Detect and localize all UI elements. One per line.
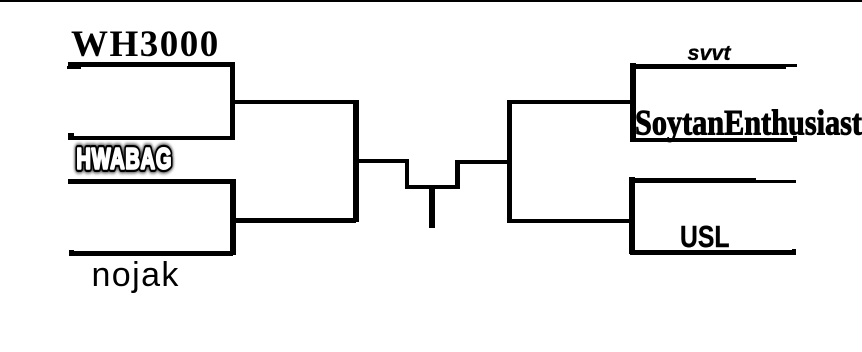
match2 vertical <box>230 179 236 255</box>
label USL <box>680 219 729 255</box>
match4 bottom line (USL line) <box>630 250 796 255</box>
match1 top line thin left tick <box>67 66 81 69</box>
match4 top line <box>630 178 756 183</box>
match4 bottom line thin extension <box>792 249 796 251</box>
top border line <box>0 0 862 2</box>
center step-down right vertical <box>455 160 460 190</box>
center bottom horizontal (final line) <box>405 185 460 190</box>
match2 bottom line (nojak line) <box>69 251 233 256</box>
match2 top line (below HWABAG) <box>68 179 236 184</box>
winner line left <box>356 159 410 164</box>
match1 bottom line left tick <box>68 133 74 136</box>
match3 top line (svvt line) <box>630 64 786 68</box>
match4 vertical <box>629 177 635 254</box>
label svvt <box>688 41 731 66</box>
connector semifinal-right to match4 <box>507 219 633 223</box>
semifinal-right vertical <box>507 100 512 223</box>
svg-text:HWABAG: HWABAG <box>77 143 173 176</box>
connector match2 to semifinal-left <box>232 218 356 223</box>
match4 top line thin extension <box>756 180 796 184</box>
match1 vertical <box>230 62 235 140</box>
match3 bottom line (SoytanEnthusiast line) <box>630 138 797 143</box>
semifinal-left vertical <box>353 100 359 223</box>
match3 top line thin extension <box>756 64 797 68</box>
match3 vertical <box>630 63 636 142</box>
winner line right <box>455 160 510 165</box>
match1 top line (WH3000 line) <box>68 62 235 67</box>
match2 bottom line left tick <box>69 250 74 252</box>
label nojak <box>92 256 180 295</box>
center step-down left vertical <box>405 159 410 190</box>
label HWABAG (white with black outline) <box>60 130 200 185</box>
match3 bottom line right end bump <box>793 136 797 138</box>
label SoytanEnthusiast <box>630 98 862 150</box>
svg-text:SoytanEnthusiast: SoytanEnthusiast <box>635 103 862 143</box>
connector semifinal-right to match3 <box>507 100 633 104</box>
match1 bottom line (HWABAG line) <box>68 136 235 141</box>
connector match1 to semifinal-left <box>232 100 356 105</box>
champion stub vertical <box>429 187 435 228</box>
label WH3000 <box>71 23 220 66</box>
